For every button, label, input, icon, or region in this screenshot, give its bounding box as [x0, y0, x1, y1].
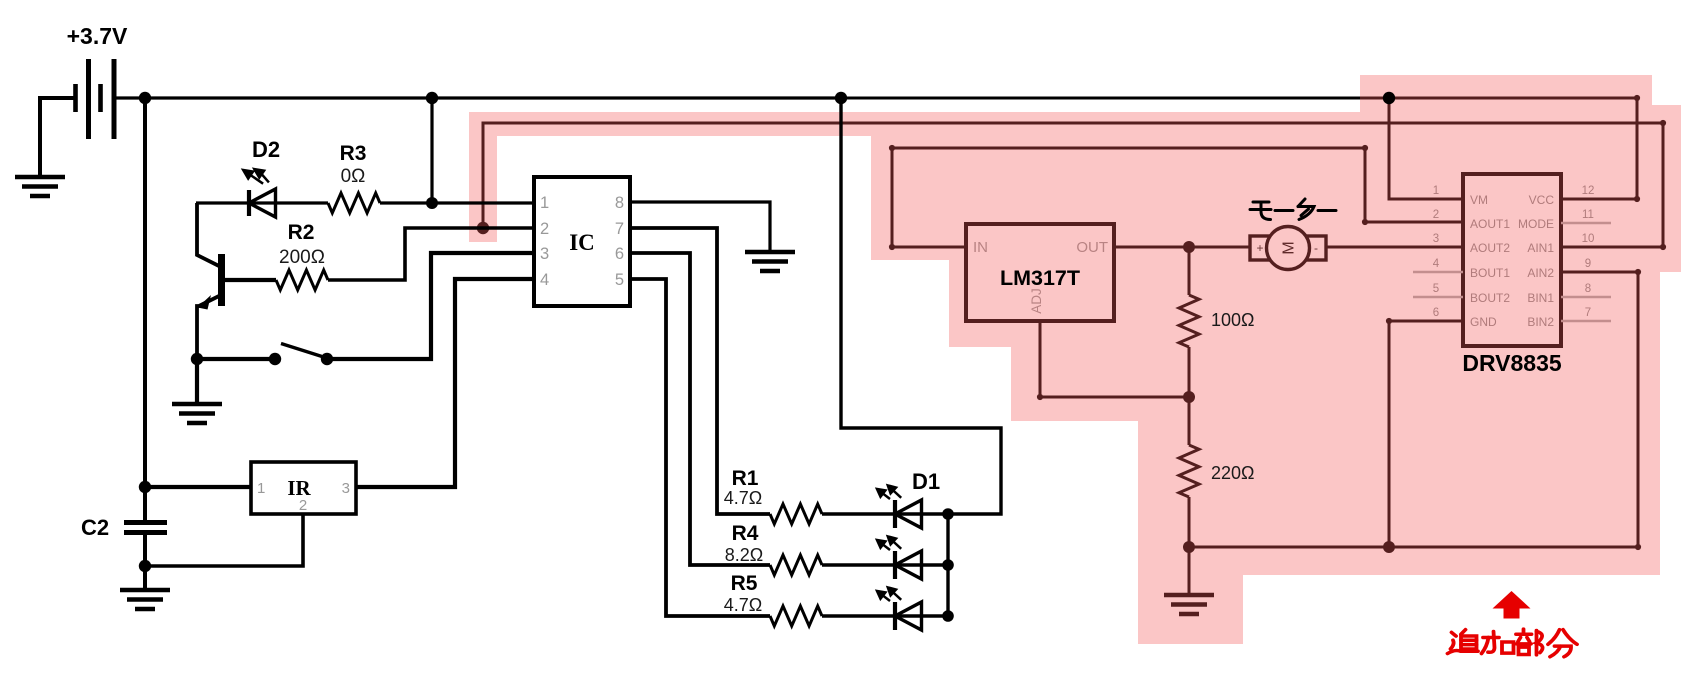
wire: riser to IR pin1	[145, 485, 251, 489]
node corner dot loop left	[889, 145, 895, 151]
svg-text:4.7Ω: 4.7Ω	[724, 488, 762, 508]
resistor 100ohm	[1179, 295, 1199, 347]
wire: IC pin1 riser	[430, 98, 433, 203]
battery plate long 2	[112, 59, 117, 139]
pin stub BOUT1 pin 4	[1413, 271, 1463, 274]
annotation text tsuika-bubun (red kanji strokes)	[1448, 629, 1578, 657]
node junction LED row2	[942, 559, 954, 571]
resistor R4 zigzag	[770, 555, 822, 575]
transistor Q1 emitter wire	[197, 296, 219, 359]
wire: R1 to LED row1 node	[822, 512, 948, 515]
wire: rail branch to VM pin 1	[1389, 98, 1463, 199]
node junction rail / left riser	[139, 92, 151, 104]
LED D2 cathode bar	[247, 190, 251, 216]
wire: 100ohm bottom lead	[1188, 347, 1191, 397]
wire: R2 to IC pin2	[328, 228, 534, 280]
node junction emitter / switch	[191, 353, 203, 365]
node corner dot rail end	[1634, 95, 1640, 101]
capacitor C2 top plate	[124, 520, 167, 525]
node junction left riser / IR pin1	[139, 481, 151, 493]
svg-text:D2: D2	[252, 137, 280, 162]
capacitor C2 bottom plate	[124, 530, 167, 535]
svg-text:+3.7V: +3.7V	[67, 23, 128, 49]
wire: +3.7V top rail	[114, 96, 841, 99]
resistor R5 zigzag	[770, 606, 822, 626]
node corner dot ADJ bend	[1037, 394, 1043, 400]
pin stub MODE pin 11	[1561, 222, 1611, 225]
svg-text:1: 1	[257, 480, 265, 497]
wire: IC pin7 to R1	[630, 228, 770, 514]
node junction GND drop	[1383, 541, 1395, 553]
switch SW1 throw dot	[321, 353, 333, 365]
wire: base to R2	[225, 278, 276, 282]
node corner dot loop AOUT1 bend	[1362, 219, 1368, 225]
LED D1a arrows	[877, 485, 901, 499]
wire: AIN1 pin 10	[1561, 246, 1663, 249]
svg-text:0Ω: 0Ω	[341, 166, 366, 187]
svg-text:100Ω: 100Ω	[1211, 310, 1255, 330]
ground (220ohm, added)	[1164, 595, 1214, 614]
wire: 100ohm top lead	[1188, 247, 1191, 295]
wire: 220ohm to ground	[1188, 497, 1191, 595]
node junction LM317 OUT	[1183, 241, 1195, 253]
battery BT1 +3.7V	[40, 59, 114, 177]
wire: R3 to IC pin1	[380, 201, 534, 204]
wire: LM317 OUT to motor	[1114, 246, 1250, 249]
node junction rail / LED feed riser	[835, 92, 847, 104]
LED D2 light arrow 2	[262, 174, 269, 182]
node junction LED row3	[942, 610, 954, 622]
node corner dot loop IN bend	[889, 244, 895, 250]
wire: IC pin4 to IR pin3	[356, 279, 534, 487]
pin stub BIN1 pin 8	[1561, 296, 1611, 299]
ground (emitter)	[172, 404, 222, 423]
svg-text:C2: C2	[81, 515, 109, 540]
switch SW1 lever	[281, 344, 322, 357]
motor M1 body circle	[1267, 227, 1310, 270]
LED D2 triangle	[249, 189, 276, 217]
wire: R5 to LED row3 node	[822, 614, 948, 617]
LED D1b cathode bar	[893, 551, 897, 579]
ground (C2)	[120, 590, 170, 609]
wire: IR pin2 to C2 node	[145, 514, 303, 566]
node junction bottom rail left	[1183, 541, 1195, 553]
wire: D2 anode from collector	[196, 201, 328, 204]
wire: LED common vertical	[946, 514, 949, 616]
wire: IC pin6 to R4	[630, 253, 770, 565]
svg-text:D1: D1	[912, 469, 940, 494]
wire: bottom ground rail	[1189, 272, 1638, 547]
node junction rail / VM riser	[1383, 92, 1395, 104]
wire: emitter node to switch pole	[197, 357, 275, 361]
IC U1 box	[534, 177, 630, 306]
svg-text:4.7Ω: 4.7Ω	[724, 595, 762, 615]
svg-text:3: 3	[342, 480, 350, 497]
node junction rail / IC pin1 riser	[426, 92, 438, 104]
svg-text:200Ω: 200Ω	[279, 247, 325, 268]
motor M1 plus terminal pad	[1250, 236, 1270, 260]
node corner dot link top-right	[1660, 120, 1666, 126]
svg-text:1: 1	[540, 194, 549, 212]
svg-text:2: 2	[540, 220, 549, 238]
svg-text:2: 2	[299, 497, 307, 514]
wire: LED common anode feed to rail	[841, 98, 1001, 514]
wire: battery negative to ground	[40, 98, 75, 177]
wire: left riser to IR and C2	[143, 98, 147, 521]
LED D2 light arrow 1	[243, 169, 269, 184]
LED D1c cathode bar	[893, 602, 897, 630]
svg-text:R4: R4	[732, 522, 759, 545]
IR receiver box	[251, 462, 356, 514]
LED D1b arrows	[877, 536, 901, 550]
node corner dot bottom right	[1635, 544, 1641, 550]
wire: IC pin5 to R5	[630, 279, 770, 616]
switch SW1 pole dot	[269, 353, 281, 365]
resistor 220ohm	[1179, 445, 1199, 497]
transistor Q1 emitter arrowhead	[198, 295, 212, 310]
node corner dot VCC bend	[1634, 196, 1640, 202]
svg-text:8.2Ω: 8.2Ω	[725, 545, 763, 565]
LED D1c triangle	[895, 602, 922, 630]
pin stub BIN2 pin 7	[1561, 320, 1611, 323]
driver U3 DRV8835 box	[1463, 174, 1561, 346]
regulator U2 LM317T box	[966, 224, 1114, 321]
wire: C2 to ground	[143, 534, 147, 590]
svg-text:IC: IC	[569, 230, 595, 255]
wire: motor minus to AOUT2 pin 3	[1326, 246, 1463, 249]
node junction C2 / IR pin2	[139, 560, 151, 572]
battery plate short 2	[98, 84, 103, 112]
wire: switch to IC pin3	[327, 253, 534, 359]
wire: R4 to LED row2 node	[822, 563, 948, 566]
svg-text:R5: R5	[731, 572, 758, 595]
transistor Q1 base bar	[218, 254, 225, 306]
node junction ADJ divider	[1183, 391, 1195, 403]
wire: DRV GND pin 6 down	[1389, 321, 1463, 547]
resistor R3 zigzag	[328, 193, 380, 213]
svg-text:R2: R2	[288, 221, 315, 244]
ground (IC pin8)	[745, 252, 795, 271]
svg-text:R1: R1	[732, 467, 759, 490]
motor M1 minus terminal pad	[1306, 236, 1326, 260]
wire: LM317 ADJ to divider	[1040, 321, 1189, 397]
battery plate short 1	[73, 84, 78, 112]
wire: added link from IC pin2 up	[483, 123, 1663, 247]
wire: emitter node to ground	[195, 359, 199, 404]
wire: +3.7V rail extension to VCC	[841, 98, 1637, 199]
wire: 220ohm top lead	[1188, 397, 1191, 445]
svg-text:220Ω: 220Ω	[1211, 463, 1255, 483]
svg-text:3: 3	[540, 245, 549, 263]
ground (battery)	[15, 177, 65, 196]
svg-text:LM317T: LM317T	[1000, 266, 1080, 290]
svg-text:5: 5	[615, 271, 624, 289]
node junction R3 / IC pin1	[426, 197, 438, 209]
LED D1a cathode bar	[893, 500, 897, 528]
svg-text:R3: R3	[340, 142, 367, 165]
node corner dot GND bend	[1386, 318, 1392, 324]
node corner dot AIN1 bend	[1660, 244, 1666, 250]
svg-text:DRV8835: DRV8835	[1462, 350, 1562, 376]
wire: IC pin8 to ground	[630, 202, 770, 252]
battery plate long 1	[86, 59, 91, 139]
svg-text:8: 8	[615, 194, 624, 212]
LED D1b triangle	[895, 551, 922, 579]
label motor (katakana strokes)	[1250, 199, 1336, 220]
resistor R2 zigzag	[276, 270, 328, 290]
resistor R1 zigzag	[770, 504, 822, 524]
transistor Q1 collector wire	[197, 203, 219, 266]
LED D1c arrows	[877, 587, 901, 601]
LED D1a triangle	[895, 500, 922, 528]
wire: AOUT1 loop to LM317 IN	[892, 148, 1463, 247]
node corner dot loop right top	[1362, 145, 1368, 151]
annotation red arrow	[1493, 591, 1531, 619]
pin stub BOUT2 pin 5	[1413, 296, 1463, 299]
node junction LED row1	[942, 508, 954, 520]
node corner dot AIN2 bend	[1635, 269, 1641, 275]
node junction at IC pin2	[477, 222, 489, 234]
svg-text:6: 6	[615, 245, 624, 263]
svg-text:7: 7	[615, 220, 624, 238]
svg-text:4: 4	[540, 271, 549, 289]
